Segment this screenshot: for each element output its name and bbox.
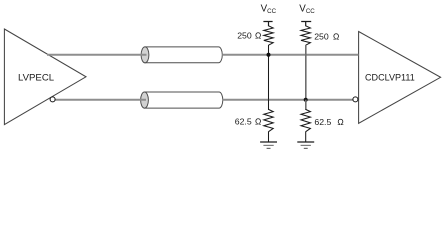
svg-text:62.5 Ω: 62.5 Ω (235, 117, 262, 127)
svg-text:62.5 Ω: 62.5 Ω (314, 117, 344, 127)
wire: right rail down to R4 (305, 100, 307, 110)
transmission line T1 left end cap (141, 47, 149, 63)
receiver U2 CDCLVP111 triangle (359, 32, 441, 124)
wire: driver true output to T1 (47, 54, 147, 56)
wire: left rail down to R3 (268, 100, 270, 110)
driver U1 LVPECL triangle (4, 29, 86, 125)
resistor R3 62.5 ohm (left) (264, 109, 273, 131)
inversion bubble on driver output (50, 97, 55, 102)
wire: T2 to receiver complement input (223, 99, 353, 101)
wire: T1 to receiver input (222, 54, 358, 56)
wire: R4 to ground (305, 132, 307, 143)
junction node on top line (267, 53, 271, 57)
transmission line T2 left end cap (141, 92, 149, 108)
wire: R3 to ground (268, 132, 270, 143)
junction node on bottom line (304, 98, 308, 102)
Vcc power bar (left rail) (263, 22, 272, 27)
transmission line T1 (top) body (145, 47, 222, 63)
resistor R2 250 ohm (right) (301, 26, 310, 45)
svg-text:250 Ω: 250 Ω (237, 31, 262, 41)
svg-text:LVPECL: LVPECL (18, 72, 55, 83)
Vcc power bar (right rail) (301, 22, 311, 27)
inversion bubble on receiver input (353, 97, 358, 102)
wire: driver complement output to T2 (55, 99, 146, 101)
resistor R1 250 ohm (left) (264, 26, 273, 45)
ground (left) (260, 142, 277, 148)
transmission line T2 (bottom) body (145, 92, 223, 108)
ground (right) (297, 142, 314, 148)
svg-text:CDCLVP111: CDCLVP111 (365, 72, 415, 82)
wire: R1 to top line junction (268, 45, 270, 100)
resistor R4 62.5 ohm (right) (301, 109, 310, 131)
wire: R2 down across top line to bottom line junction (305, 45, 307, 100)
svg-text:250 Ω: 250 Ω (314, 32, 340, 42)
